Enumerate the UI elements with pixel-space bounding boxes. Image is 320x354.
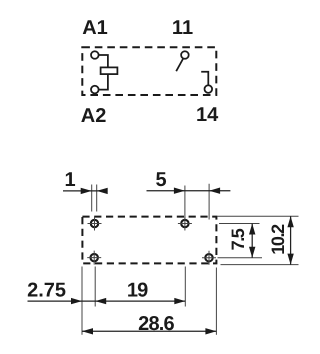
hole 11 (top-right) bbox=[178, 217, 192, 231]
right extension line hole-row-top bbox=[219, 223, 260, 225]
dim 5 extension lines bbox=[185, 184, 209, 220]
dim 7.5 line bbox=[251, 224, 253, 258]
bottom extension line package-right bbox=[215, 268, 217, 335]
dim line 2.75/19 bbox=[28, 300, 186, 302]
relay outline (dashed box, schematic) bbox=[82, 47, 216, 95]
contact lever (open) bbox=[176, 59, 183, 72]
wire A1 to coil bbox=[99, 55, 108, 67]
dim 19 arrow left bbox=[95, 298, 106, 304]
svg-text:10.2: 10.2 bbox=[268, 224, 288, 255]
dim 1 arrow left bbox=[81, 188, 92, 194]
svg-text:11: 11 bbox=[172, 17, 193, 39]
coil terminal A1 bbox=[91, 51, 99, 59]
right extension line hole-row-bottom bbox=[218, 257, 263, 259]
svg-text:2.75: 2.75 bbox=[27, 279, 66, 301]
bottom extension line pin-column-right bbox=[184, 267, 186, 307]
svg-text:19: 19 bbox=[127, 279, 148, 301]
hole A2 (bottom-left) bbox=[87, 251, 101, 265]
bottom extension line pin-column-left bbox=[94, 267, 96, 307]
right extension line package-bottom bbox=[221, 264, 299, 266]
svg-text:5: 5 bbox=[155, 169, 166, 191]
dim line 28.6 bbox=[82, 330, 216, 332]
svg-text:A2: A2 bbox=[81, 105, 107, 127]
dim 1 arrow right bbox=[97, 188, 108, 194]
dim 10.2 line bbox=[290, 216, 292, 264]
dim 5 line bbox=[147, 190, 231, 192]
dim 5 arrow right bbox=[209, 188, 220, 194]
dim 10.2 arrow down bbox=[287, 254, 293, 265]
dim 28.6 arrow right bbox=[205, 328, 216, 334]
coil K1 bbox=[101, 67, 118, 74]
svg-text:7.5: 7.5 bbox=[228, 228, 248, 250]
dim 2.75 arrow bbox=[71, 298, 82, 304]
dim 10.2 arrow up bbox=[287, 216, 293, 227]
bottom extension line package-left bbox=[81, 267, 83, 335]
coil terminal A2 bbox=[91, 86, 99, 94]
hole 14 (right) bbox=[202, 251, 216, 265]
right extension line package-top bbox=[218, 215, 299, 217]
svg-text:A1: A1 bbox=[82, 17, 108, 39]
contact terminal 14 bbox=[205, 85, 213, 93]
contact terminal 11 bbox=[181, 51, 189, 59]
fixed contact wire bbox=[201, 72, 208, 85]
svg-text:14: 14 bbox=[196, 104, 219, 126]
dim 28.6 arrow left bbox=[82, 328, 93, 334]
wire coil to A2 bbox=[99, 74, 108, 90]
dim 7.5 arrow down bbox=[249, 247, 255, 258]
hole A1 (top-left) bbox=[88, 217, 102, 231]
dim 7.5 arrow up bbox=[249, 224, 255, 235]
dim 19 arrow right bbox=[174, 298, 185, 304]
dim 1 line bbox=[63, 190, 108, 192]
dim 5 arrow left bbox=[174, 188, 185, 194]
svg-text:1: 1 bbox=[64, 169, 75, 191]
dim 1 extension lines bbox=[92, 185, 97, 212]
footprint outline (dashed box) bbox=[82, 217, 216, 264]
